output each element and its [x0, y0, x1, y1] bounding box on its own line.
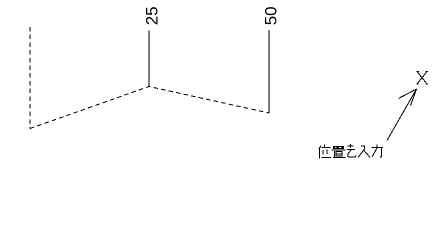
- wire: dashed diagonal rising from left corner to apex: [30, 87, 149, 129]
- glyph 置: [332, 146, 346, 157]
- glyph 位: [319, 145, 331, 159]
- glyph を: [347, 144, 356, 157]
- glyph 力: [371, 145, 383, 158]
- wire: arrowhead barb lower: [411, 89, 417, 106]
- wire: leader arrow shaft: [387, 89, 417, 141]
- svg-text:25: 25: [143, 6, 162, 25]
- wire: left dashed vertical line: [29, 27, 31, 129]
- wire: arrowhead barb upper: [399, 89, 417, 99]
- svg-text:50: 50: [262, 6, 281, 25]
- node: dimension line 50 (solid vertical): [268, 30, 270, 114]
- node: dimension line 25 (solid vertical): [148, 31, 150, 87]
- node: prompt text 位置 を入力 drawn as vector strokes: [319, 144, 383, 159]
- wire: dashed diagonal falling from apex to right end: [149, 87, 269, 114]
- glyph 入: [358, 146, 370, 158]
- node X: axis label drawn as strokes: [416, 72, 428, 85]
